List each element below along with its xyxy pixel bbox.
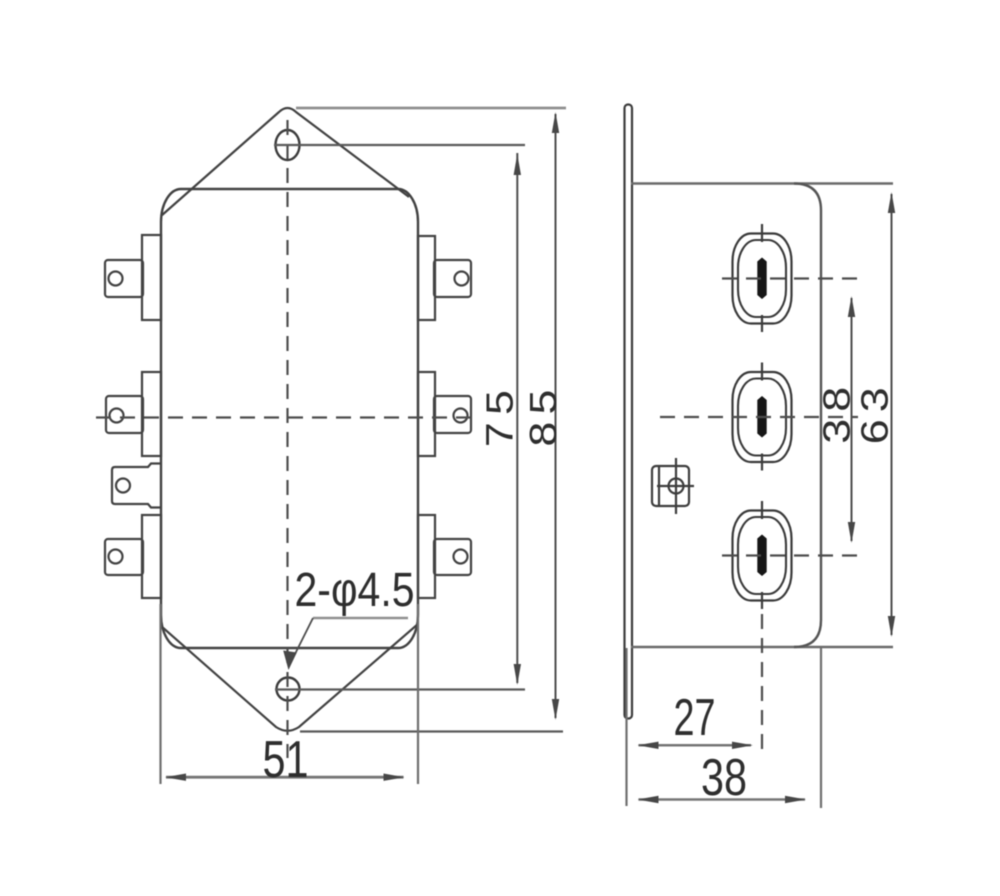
terminal base right top (418, 236, 435, 320)
vertical center line below socket 3 (761, 614, 763, 757)
spade terminal left lower-middle (112, 464, 160, 508)
spade hole left lower-middle (116, 479, 130, 493)
dimension text 85 (521, 383, 564, 447)
leader line for 2-phi4.5 (313, 617, 408, 620)
spade terminal right bottom (434, 539, 471, 575)
bottom mounting ear (161, 624, 418, 731)
filter body bottom edge (side view) (631, 646, 893, 649)
horizontal center line (front view) (96, 416, 478, 418)
socket 1 inner (738, 240, 786, 317)
svg-text:51: 51 (263, 731, 309, 789)
spade hole left bottom (109, 550, 123, 564)
dimension line 85 (555, 114, 557, 718)
spade terminal left top (105, 260, 143, 297)
extension line 51 left (159, 604, 161, 784)
svg-text:85: 85 (521, 383, 564, 447)
socket 3 outer (733, 511, 792, 601)
spade hole left top (109, 272, 123, 286)
dimension line 38 bottom (639, 798, 806, 801)
svg-text:75: 75 (478, 383, 521, 447)
filter body outline (front view) (161, 189, 418, 648)
vertical center line (front view) (286, 120, 288, 758)
socket 3 inner (738, 517, 786, 594)
socket 1 outer (733, 234, 792, 324)
dimension line 38 vertical (851, 298, 853, 541)
dimension text 75 (478, 383, 521, 447)
filter body right edge and corners (side view) (794, 184, 821, 648)
terminal base left top (142, 235, 161, 320)
socket 1 slot (757, 258, 766, 300)
svg-text:38: 38 (815, 380, 858, 444)
socket 2 outer (733, 372, 792, 462)
dimension text 63 (853, 380, 896, 444)
bottom mounting hole (277, 678, 300, 701)
spade hole right top (455, 272, 469, 286)
extension line 51 right (417, 604, 419, 784)
svg-text:38: 38 (701, 749, 747, 807)
flange plate (side view) (625, 105, 633, 719)
top mounting hole (276, 130, 300, 160)
dimension line 27 (639, 744, 752, 747)
extension line from top peak (296, 107, 566, 110)
extension line from bottom peak (300, 730, 563, 732)
svg-text:2-φ4.5: 2-φ4.5 (295, 564, 415, 617)
svg-text:27: 27 (674, 689, 716, 747)
top mounting ear (161, 108, 409, 216)
spade terminal right middle (434, 396, 471, 433)
terminal base left bottom (142, 515, 161, 598)
socket 1 crosshair (761, 224, 763, 242)
dimension line 63 (891, 194, 893, 635)
terminal base right bottom (418, 515, 435, 598)
socket 3 crosshair (761, 501, 763, 519)
dimension text 38 vertical (815, 380, 858, 444)
dimension line 51 (166, 776, 404, 779)
extension line from bottom hole center (275, 688, 525, 690)
socket 2 inner (738, 379, 786, 456)
dimension line 75 (516, 153, 518, 683)
socket 3 slot (757, 535, 766, 577)
terminal base right middle (418, 372, 435, 456)
spade hole left middle (110, 409, 124, 423)
socket 2 crosshair (761, 363, 763, 381)
spade terminal left bottom (105, 539, 143, 575)
spade hole right middle (454, 409, 468, 423)
filter body top edge (side view) (631, 182, 893, 185)
extension line left (flange) for 27/38 (625, 648, 627, 806)
socket 2 slot (757, 396, 766, 438)
svg-text:63: 63 (853, 380, 896, 444)
spade terminal left middle (106, 396, 143, 433)
ground marking symbol (652, 458, 694, 514)
spade terminal right top (434, 260, 471, 297)
extension line from top hole center (274, 144, 525, 146)
spade hole right bottom (454, 550, 468, 564)
terminal base left middle (142, 372, 161, 456)
extension line right body for 38 (820, 648, 822, 808)
